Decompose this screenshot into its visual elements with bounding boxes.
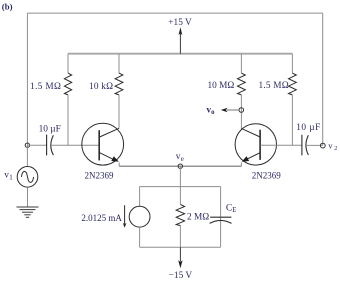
wire base lead right (Q2 base to C) — [260, 144, 301, 146]
wire base lead left (C to Q1 base) — [51, 144, 99, 146]
wire 10M branch lower (Q2 collector lead) — [240, 95, 242, 129]
wire right border — [322, 13, 324, 146]
resistor R 10M zigzag — [238, 73, 246, 95]
wire 2M branch upper — [179, 187, 181, 205]
svg-text:+15 V: +15 V — [168, 18, 192, 28]
resistor R 1.5M left zigzag — [64, 73, 71, 95]
resistor R 2M zigzag — [176, 204, 184, 225]
wire emitter bus — [119, 165, 241, 167]
wire base lead left (node to C plate) — [27, 144, 46, 146]
wire 10M branch upper — [240, 54, 242, 73]
wire top rail outer — [27, 12, 322, 14]
wire bias box bottom — [140, 246, 221, 248]
source v1 sine — [17, 145, 38, 207]
capacitor CE — [210, 217, 232, 223]
svg-text:2.0125 mA: 2.0125 mA — [81, 213, 122, 223]
wire bias box left upper — [139, 187, 141, 207]
wire +15V supply rail — [68, 53, 292, 55]
svg-text:v1: v1 — [4, 170, 13, 181]
-15V supply arrow — [178, 247, 182, 268]
svg-text:10 kΩ: 10 kΩ — [89, 82, 113, 92]
+15V supply arrow — [179, 27, 183, 53]
node vo terminal circle — [239, 108, 244, 113]
node v2 terminal circle — [320, 143, 325, 148]
node ve circle — [178, 164, 182, 168]
wire 10k branch lower (Q1 collector lead) — [118, 95, 120, 128]
svg-text:2 MΩ: 2 MΩ — [187, 213, 209, 223]
vo arrow — [221, 108, 239, 112]
svg-text:2N2369: 2N2369 — [85, 171, 114, 181]
svg-text:1.5 MΩ: 1.5 MΩ — [30, 82, 61, 92]
svg-text:2N2369: 2N2369 — [252, 171, 281, 181]
svg-text:CE: CE — [226, 202, 237, 214]
svg-text:vo: vo — [206, 105, 215, 116]
wire ve stem down — [179, 166, 181, 186]
wire C to v2 terminal — [306, 144, 322, 146]
wire 1.5M left branch lower — [67, 95, 69, 145]
capacitor 10uF left — [47, 135, 54, 156]
node v1 input terminal circle — [25, 143, 29, 147]
svg-text:10 MΩ: 10 MΩ — [208, 81, 235, 91]
svg-text:10 µF: 10 µF — [39, 124, 61, 134]
wire bias box left lower — [139, 227, 141, 247]
svg-text:−15 V: −15 V — [169, 271, 193, 281]
transistor Q1 2N2369 — [82, 123, 124, 166]
svg-text:(b): (b) — [2, 2, 13, 12]
capacitor 10uF right — [302, 135, 309, 156]
svg-text:v2: v2 — [328, 140, 337, 152]
wire 1.5M right branch lower — [291, 95, 293, 145]
wire bias box top — [140, 186, 221, 188]
wire left border — [26, 13, 28, 147]
svg-text:10 µF: 10 µF — [296, 123, 321, 133]
wire 2M branch lower — [179, 226, 181, 248]
wire 1.5M right branch upper — [291, 54, 293, 73]
current source I 2.0125mA — [123, 205, 150, 228]
wire bias box right — [220, 187, 222, 248]
wire 10k branch upper — [118, 54, 120, 73]
resistor R 1.5M right zigzag — [289, 73, 297, 95]
svg-text:1.5 MΩ: 1.5 MΩ — [259, 81, 289, 91]
resistor R 10k zigzag — [115, 73, 123, 95]
wire 1.5M left branch upper — [67, 54, 69, 73]
svg-text:ve: ve — [176, 152, 184, 163]
ground — [17, 207, 39, 217]
transistor Q2 2N2369 — [235, 124, 276, 167]
